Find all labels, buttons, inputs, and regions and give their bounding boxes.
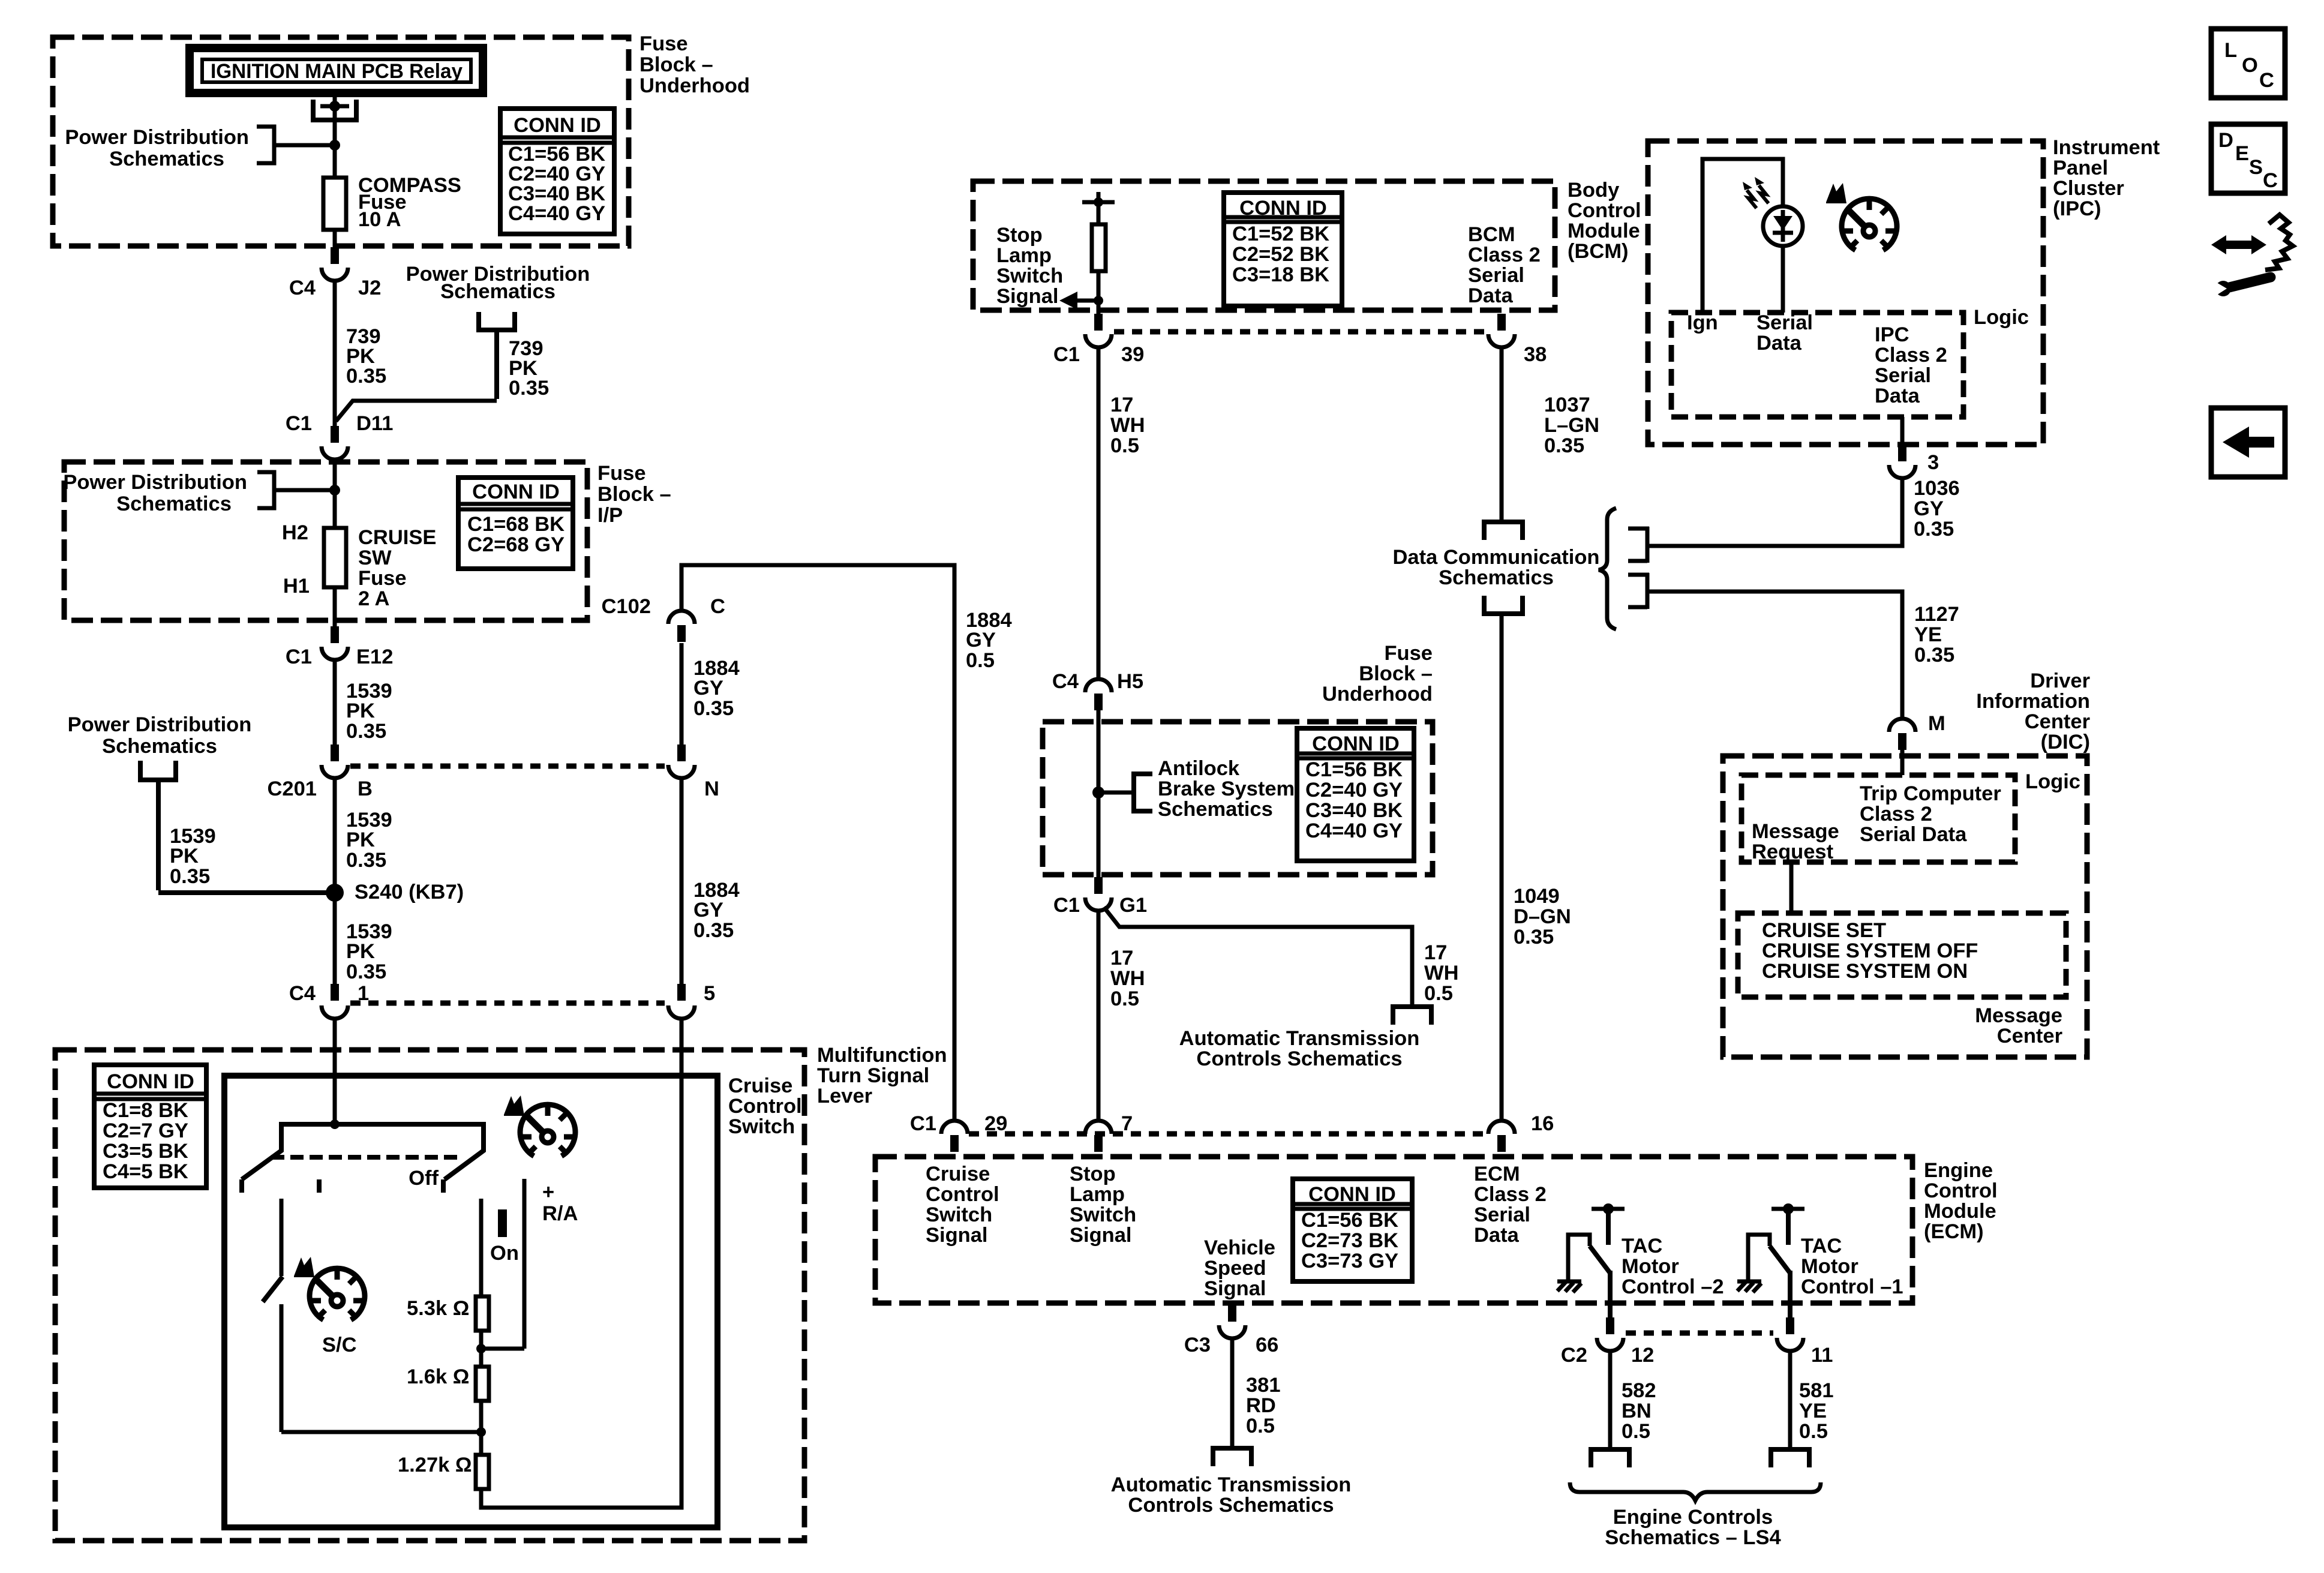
box: Multifunction Turn Signal Lever (dashed): [55, 1050, 804, 1541]
svg-text:ECM: ECM: [1474, 1163, 1520, 1185]
box: Logic (DIC): [1742, 775, 2015, 862]
svg-text:Power Distribution: Power Distribution: [68, 713, 252, 736]
TAC motor control -1: [1748, 1203, 1804, 1317]
svg-text:C: C: [2263, 169, 2278, 192]
box: Cruise Control Switch (solid): [224, 1076, 717, 1527]
svg-text:CRUISE SET: CRUISE SET: [1762, 919, 1886, 942]
label: Stop Lamp Switch Signal: [996, 224, 1063, 308]
connector line BCM (dotted): [1114, 329, 1486, 335]
box: Fuse Block - Underhood (top left): [53, 37, 629, 246]
svg-text:Serial Data: Serial Data: [1860, 823, 1967, 846]
off-page staple (581): [1771, 1449, 1809, 1467]
svg-text:Signal: Signal: [1204, 1277, 1266, 1300]
svg-text:J2: J2: [358, 277, 381, 299]
svg-text:GY: GY: [693, 677, 723, 700]
connector C1/29: [910, 1112, 1007, 1152]
svg-text:C1: C1: [910, 1112, 936, 1135]
svg-text:R/A: R/A: [542, 1202, 578, 1225]
ground (TAC -2): [1557, 1281, 1581, 1292]
wire 17 WH 0.5 (G1 to ECM 7): [1098, 911, 1145, 1121]
table: CONN ID (BCM): [1224, 193, 1342, 306]
svg-text:Vehicle: Vehicle: [1204, 1236, 1275, 1259]
box: Instrument Panel Cluster (IPC): [1648, 141, 2043, 445]
connector C4/J2: [289, 247, 381, 299]
label: Ign: [1687, 311, 1718, 334]
svg-text:L–GN: L–GN: [1544, 414, 1599, 437]
svg-text:Power Distribution: Power Distribution: [65, 126, 249, 149]
svg-text:0.5: 0.5: [1110, 987, 1139, 1010]
svg-text:Lever: Lever: [817, 1085, 872, 1107]
svg-text:C201: C201: [268, 778, 317, 800]
wire 581 YE 0.5: [1790, 1351, 1834, 1448]
svg-text:BN: BN: [1622, 1400, 1652, 1422]
svg-text:0.35: 0.35: [346, 849, 386, 872]
svg-text:CONN ID: CONN ID: [1312, 733, 1400, 755]
label: Cruise Control Switch Signal: [926, 1163, 999, 1247]
svg-text:BCM: BCM: [1468, 223, 1515, 246]
wire 582 BN 0.5: [1610, 1351, 1656, 1448]
svg-text:0.35: 0.35: [509, 377, 549, 400]
svg-text:Schematics: Schematics: [116, 493, 232, 515]
svg-text:Serial: Serial: [1875, 364, 1931, 387]
svg-text:GY: GY: [1914, 497, 1944, 520]
box: Engine Control Module (ECM): [875, 1157, 1912, 1303]
svg-text:Serial: Serial: [1468, 264, 1524, 287]
box: Message Center display (dashed): [1738, 913, 2066, 997]
label: Fuse Block - Underhood (antilock box): [1322, 642, 1433, 706]
svg-text:C1: C1: [1053, 343, 1080, 366]
off-page staple (data comm bottom): [1484, 596, 1523, 614]
svg-text:0.35: 0.35: [1914, 644, 1954, 667]
contact On line: [479, 1199, 484, 1296]
svg-text:Data Communication: Data Communication: [1392, 546, 1599, 569]
svg-text:B: B: [358, 778, 373, 800]
svg-text:C102: C102: [602, 595, 651, 618]
svg-text:Multifunction: Multifunction: [817, 1044, 947, 1067]
svg-text:H2: H2: [282, 521, 308, 544]
svg-text:Control –2: Control –2: [1622, 1275, 1724, 1298]
label: Automatic Transmission Controls Schematics (lower): [1111, 1473, 1352, 1517]
svg-text:WH: WH: [1110, 967, 1145, 990]
label: Trip Computer Class 2 Serial Data: [1860, 782, 2001, 846]
label: ECM Class 2 Serial Data: [1474, 1163, 1547, 1247]
wire 1539 PK 0.35 (B to S240): [335, 778, 392, 984]
svg-text:Information: Information: [1976, 690, 2090, 713]
label: Logic (IPC): [1974, 306, 2029, 329]
label: Multifunction Turn Signal Lever: [817, 1044, 947, 1107]
svg-text:Power Distribution: Power Distribution: [63, 471, 247, 494]
label: Body Control Module (BCM): [1568, 179, 1641, 263]
svg-text:C: C: [2259, 69, 2274, 92]
svg-text:Schematics – LS4: Schematics – LS4: [1605, 1526, 1780, 1549]
contact tick Off: [409, 1167, 443, 1193]
connector 16: [1488, 1112, 1554, 1152]
LED indicator: [1763, 206, 1803, 246]
svg-text:C1=8 BK: C1=8 BK: [103, 1099, 188, 1122]
svg-text:D–GN: D–GN: [1514, 905, 1571, 928]
label: CRUISE messages: [1762, 919, 1978, 983]
label: CRUISE SW Fuse 2 A: [358, 526, 436, 610]
wire 1884 GY 0.35 (5 to N): [681, 778, 740, 984]
relay K: IGNITION MAIN PCB Relay box: [190, 48, 483, 93]
svg-text:E: E: [2235, 142, 2249, 165]
connector C3/66: [1184, 1305, 1278, 1356]
label: Stop Lamp Switch Signal (ECM): [1070, 1163, 1136, 1247]
svg-text:C4=5 BK: C4=5 BK: [103, 1160, 188, 1183]
svg-text:Block –: Block –: [639, 53, 713, 76]
contact tick (middle): [317, 1179, 322, 1193]
svg-text:Schematics: Schematics: [109, 148, 224, 170]
svg-text:S: S: [2249, 156, 2263, 179]
wire: fuse to C4/J2: [333, 230, 337, 247]
label: COMPASS Fuse 10 A: [358, 174, 461, 231]
svg-text:C2=40 GY: C2=40 GY: [1305, 779, 1403, 801]
svg-text:Engine: Engine: [1924, 1159, 1993, 1182]
svg-text:1036: 1036: [1914, 477, 1960, 500]
svg-text:Antilock: Antilock: [1158, 757, 1240, 780]
wire: LED to logic: [1781, 246, 1785, 313]
svg-text:Schematics: Schematics: [1158, 798, 1273, 821]
svg-text:Request: Request: [1752, 840, 1834, 863]
svg-text:Logic: Logic: [1974, 306, 2029, 329]
wire: S/C to resistor junction: [281, 1304, 481, 1432]
svg-text:C1=52 BK: C1=52 BK: [1232, 223, 1329, 245]
svg-text:Center: Center: [2025, 710, 2090, 733]
wire 1539 PK 0.35 (E12 to C201): [335, 660, 392, 745]
svg-text:SW: SW: [358, 547, 392, 569]
wire 739 PK 0.35 (C4/J2 to C1/D11): [335, 281, 386, 426]
svg-text:11: 11: [1811, 1344, 1833, 1367]
svg-text:66: 66: [1256, 1334, 1278, 1356]
svg-text:O: O: [2242, 54, 2258, 77]
wire: fuse to C1/E12: [333, 587, 337, 626]
svg-text:C3=5 BK: C3=5 BK: [103, 1140, 188, 1163]
connector 5: [668, 982, 715, 1019]
svg-text:E12: E12: [356, 646, 393, 668]
icon box: LOC: [2211, 29, 2285, 98]
svg-text:1.27k Ω: 1.27k Ω: [398, 1454, 472, 1476]
off-page staple (381): [1213, 1448, 1251, 1466]
svg-text:C3=18 BK: C3=18 BK: [1232, 263, 1329, 286]
svg-text:CONN ID: CONN ID: [107, 1070, 194, 1093]
svg-text:7: 7: [1121, 1112, 1133, 1135]
contact R/A line: [524, 1179, 578, 1349]
relay pin socket: [313, 100, 356, 120]
box: Fuse Block - I/P: [64, 462, 587, 620]
svg-text:Class 2: Class 2: [1468, 244, 1541, 266]
svg-text:1037: 1037: [1544, 394, 1590, 416]
svg-text:C3=40 BK: C3=40 BK: [1305, 799, 1403, 822]
connector M: [1889, 712, 1945, 750]
wire 1884 GY 0.5 (C102 up and over to ECM 29): [681, 565, 1012, 1121]
wire: C4/1 into switch: [330, 1019, 340, 1129]
svg-text:16: 16: [1531, 1112, 1554, 1135]
connector C1/E12: [286, 626, 394, 668]
junction S240 (KB7): [326, 881, 464, 903]
svg-text:0.35: 0.35: [346, 960, 386, 983]
svg-text:Data: Data: [1756, 332, 1802, 355]
svg-text:Motor: Motor: [1801, 1255, 1858, 1278]
svg-text:Serial: Serial: [1474, 1203, 1530, 1226]
svg-text:Underhood: Underhood: [639, 74, 750, 97]
svg-text:Ign: Ign: [1687, 311, 1718, 334]
svg-text:Automatic Transmission: Automatic Transmission: [1179, 1027, 1420, 1050]
svg-text:Driver: Driver: [2030, 670, 2090, 692]
svg-text:Data: Data: [1468, 284, 1514, 307]
label: Message Center: [1975, 1004, 2062, 1047]
wire 17 WH 0.5 (39 to H5): [1098, 347, 1145, 679]
svg-text:Control: Control: [728, 1095, 802, 1118]
svg-text:CONN ID: CONN ID: [1308, 1183, 1396, 1206]
lightning arrows (LED): [1743, 177, 1768, 208]
svg-text:0.5: 0.5: [1424, 982, 1453, 1005]
connector 38: [1488, 314, 1547, 366]
svg-text:(IPC): (IPC): [2053, 197, 2101, 220]
svg-text:Module: Module: [1568, 220, 1640, 242]
wire + junction (5.3k/1.6k, R/A tap): [476, 1331, 524, 1367]
svg-text:IPC: IPC: [1875, 323, 1909, 346]
svg-text:Stop: Stop: [1070, 1163, 1116, 1185]
svg-text:Brake System: Brake System: [1158, 778, 1295, 800]
svg-text:5.3k Ω: 5.3k Ω: [407, 1297, 469, 1320]
wire 17 WH 0.5 branch (G1 to automatic transmission): [1104, 907, 1458, 1005]
svg-text:PK: PK: [346, 700, 375, 722]
svg-text:GY: GY: [966, 629, 996, 652]
svg-text:Fuse: Fuse: [1384, 642, 1433, 665]
svg-text:H5: H5: [1117, 670, 1143, 693]
svg-text:I/P: I/P: [597, 504, 623, 527]
svg-text:C1=56 BK: C1=56 BK: [1305, 758, 1403, 781]
brace: Engine Controls Schematics - LS4: [1570, 1482, 1821, 1500]
wire: Ign riser: [1703, 159, 1783, 313]
svg-text:WH: WH: [1424, 962, 1458, 984]
svg-text:1049: 1049: [1514, 885, 1560, 908]
svg-text:Motor: Motor: [1622, 1255, 1679, 1278]
fuse F1: COMPASS Fuse 10 A: [323, 178, 346, 230]
table: CONN ID (cruise switch): [94, 1065, 206, 1188]
brace (data comm): [1599, 508, 1616, 629]
gauge icon (top right in switch): [504, 1095, 575, 1156]
svg-text:Serial: Serial: [1756, 311, 1813, 334]
label: Power Distribution Schematics (box1): [65, 126, 249, 170]
table: CONN ID (I/P): [458, 478, 573, 569]
svg-text:CONN ID: CONN ID: [514, 114, 601, 137]
svg-text:TAC: TAC: [1801, 1235, 1842, 1257]
stop lamp switch feed bar: [1082, 192, 1115, 207]
label: Cruise Control Switch: [728, 1074, 802, 1138]
svg-text:Data: Data: [1875, 385, 1920, 407]
svg-text:C4: C4: [289, 277, 316, 299]
svg-text:Fuse: Fuse: [597, 462, 646, 485]
resistor 5.3k: [407, 1296, 489, 1331]
connector line C2 (dotted): [1626, 1331, 1773, 1336]
connector 7: [1085, 1112, 1133, 1152]
svg-text:Lamp: Lamp: [996, 244, 1052, 267]
svg-text:GY: GY: [693, 899, 723, 921]
svg-text:17: 17: [1110, 947, 1133, 969]
svg-text:38: 38: [1524, 343, 1547, 366]
svg-text:D11: D11: [356, 412, 393, 435]
svg-text:C1: C1: [1053, 894, 1080, 917]
svg-text:Message: Message: [1975, 1004, 2062, 1027]
table: CONN ID (antilock): [1297, 728, 1414, 861]
svg-text:5: 5: [704, 982, 715, 1005]
gauge icon (IPC): [1826, 183, 1897, 250]
svg-text:Engine Controls: Engine Controls: [1613, 1506, 1773, 1529]
svg-text:0.35: 0.35: [693, 919, 734, 942]
svg-text:17: 17: [1424, 941, 1447, 964]
svg-text:39: 39: [1121, 343, 1144, 366]
svg-text:L: L: [2224, 39, 2237, 62]
svg-text:0.35: 0.35: [170, 865, 210, 888]
svg-text:Switch: Switch: [1070, 1203, 1136, 1226]
svg-text:29: 29: [984, 1112, 1007, 1135]
svg-text:N: N: [704, 778, 719, 800]
label: Power Distribution Schematics (left S240 branch): [68, 713, 252, 758]
connector line C201 (dotted to N): [350, 764, 665, 769]
svg-text:0.5: 0.5: [1246, 1415, 1275, 1437]
svg-text:H1: H1: [283, 575, 310, 598]
svg-text:Control: Control: [1924, 1179, 1998, 1202]
svg-text:3: 3: [1927, 451, 1939, 474]
label: Logic (DIC): [2025, 770, 2080, 793]
svg-text:Speed: Speed: [1204, 1257, 1266, 1280]
resistor 1.6k: [407, 1365, 489, 1401]
svg-text:YE: YE: [1914, 623, 1942, 646]
svg-text:M: M: [1928, 712, 1945, 735]
svg-text:C: C: [710, 595, 725, 618]
svg-text:0.35: 0.35: [1914, 518, 1954, 541]
resistor 1.27k: [398, 1454, 489, 1489]
svg-text:C2=73 BK: C2=73 BK: [1301, 1229, 1398, 1252]
svg-text:D: D: [2218, 129, 2233, 152]
svg-text:Block –: Block –: [597, 483, 671, 506]
svg-text:582: 582: [1622, 1379, 1656, 1402]
svg-text:Controls Schematics: Controls Schematics: [1128, 1494, 1334, 1517]
svg-text:Switch: Switch: [996, 265, 1063, 287]
svg-text:1127: 1127: [1914, 603, 1959, 626]
connector C4/1: [289, 982, 369, 1019]
svg-text:Control: Control: [926, 1183, 999, 1206]
wire: D11 to cruise fuse: [333, 460, 337, 528]
ground (TAC -1): [1737, 1281, 1761, 1292]
fuse F2: CRUISE SW Fuse 2 A: [282, 521, 346, 598]
svg-text:Class 2: Class 2: [1875, 344, 1947, 367]
svg-text:0.5: 0.5: [1622, 1420, 1650, 1443]
connector C2/12: [1561, 1317, 1654, 1367]
svg-text:Controls Schematics: Controls Schematics: [1196, 1047, 1402, 1070]
label: IPC Class 2 Serial Data: [1875, 323, 1947, 407]
connector line C4 (dotted to 5): [350, 1001, 665, 1006]
off-page staple: power distribution branch: [479, 312, 515, 330]
label: Engine Control Module (ECM): [1924, 1159, 1998, 1243]
wire + junction (1.6k/1.27k): [476, 1401, 486, 1455]
connector 11: [1777, 1317, 1833, 1367]
wire 1127 YE 0.35 (data comm to DIC M): [1649, 592, 1959, 719]
svg-text:C1=68 BK: C1=68 BK: [467, 513, 565, 536]
label: Power Distribution Schematics (right branch): [406, 263, 590, 303]
wire 381 RD 0.5: [1232, 1338, 1281, 1447]
wire: M into logic: [1900, 750, 1905, 775]
label: Driver Information Center (DIC): [1976, 670, 2090, 754]
off-page tab (to DIC serial data): [1628, 573, 1649, 609]
svg-text:Data: Data: [1474, 1224, 1520, 1247]
stop lamp switch element: [1092, 202, 1106, 314]
svg-text:Center: Center: [1997, 1025, 2062, 1047]
svg-text:0.5: 0.5: [1110, 434, 1139, 457]
svg-text:Signal: Signal: [996, 285, 1059, 308]
wire: H5 through box: [1097, 710, 1101, 877]
connector C1/39: [1053, 314, 1144, 366]
svg-text:C2=68 GY: C2=68 GY: [467, 533, 565, 556]
wire: relay to fuse: [333, 93, 337, 178]
svg-text:C1=56 BK: C1=56 BK: [1301, 1209, 1398, 1232]
wire 1036 GY 0.35 (3 to data comm): [1649, 477, 1960, 546]
label: Engine Controls Schematics - LS4: [1605, 1506, 1780, 1549]
switch rocker bus bar: [242, 1124, 484, 1193]
svg-text:Class 2: Class 2: [1860, 803, 1932, 825]
svg-text:Automatic Transmission: Automatic Transmission: [1111, 1473, 1352, 1496]
label: Power Distribution Schematics (I/P box): [63, 471, 247, 515]
connector C102/C: [602, 595, 725, 642]
label: Instrument Panel Cluster (IPC): [2053, 136, 2160, 220]
svg-text:C3: C3: [1184, 1334, 1211, 1356]
label: TAC Motor Control -1: [1801, 1235, 1903, 1298]
svg-text:10 A: 10 A: [358, 208, 401, 231]
svg-text:Off: Off: [409, 1167, 439, 1190]
rocker coupling (dashed): [271, 1155, 463, 1160]
connector C201/B: [268, 745, 373, 800]
gauge icon S/C: [294, 1257, 365, 1356]
svg-text:0.35: 0.35: [346, 720, 386, 743]
wire 1539 PK 0.35 (branch to S240): [158, 780, 335, 893]
svg-text:0.35: 0.35: [346, 365, 386, 388]
svg-text:0.35: 0.35: [693, 697, 734, 720]
wire 739 PK 0.35 (branch to D11): [336, 330, 549, 421]
wire 1539 PK 0.35 (S240 to C4/1): [346, 920, 392, 983]
svg-text:C4=40 GY: C4=40 GY: [1305, 819, 1403, 842]
svg-text:0.35: 0.35: [1514, 926, 1554, 948]
off-page bracket: Power Distribution Schematics (in box1): [257, 127, 340, 163]
svg-text:Body: Body: [1568, 179, 1619, 202]
svg-text:Fuse: Fuse: [358, 567, 407, 590]
svg-text:Turn Signal: Turn Signal: [817, 1064, 929, 1087]
wire 1049 D-GN 0.35 (to ECM 16): [1502, 614, 1571, 1121]
svg-text:Class 2: Class 2: [1474, 1183, 1547, 1206]
box: Logic (IPC): [1671, 313, 1963, 417]
svg-text:Instrument: Instrument: [2053, 136, 2160, 159]
svg-text:Stop: Stop: [996, 224, 1043, 247]
svg-text:0.35: 0.35: [1544, 434, 1584, 457]
svg-text:C4=40 GY: C4=40 GY: [508, 202, 605, 225]
stop lamp signal arrow: [1059, 292, 1103, 310]
connector N: [668, 745, 719, 800]
svg-text:C1: C1: [286, 412, 312, 435]
connector C4/H5: [1052, 670, 1143, 710]
svg-text:CONN ID: CONN ID: [472, 481, 560, 503]
off-page staple (data comm top): [1484, 522, 1523, 540]
svg-text:Cluster: Cluster: [2053, 177, 2124, 200]
svg-text:Lamp: Lamp: [1070, 1183, 1125, 1206]
label: Vehicle Speed Signal: [1204, 1236, 1275, 1300]
svg-text:C4: C4: [1052, 670, 1079, 693]
On position mark: [490, 1209, 519, 1265]
svg-text:Switch: Switch: [728, 1115, 795, 1138]
junction + bracket: Antilock Brake System Schematics: [1092, 774, 1152, 811]
box: Fuse Block - Underhood (antilock): [1043, 722, 1433, 875]
icon box: back arrow: [2211, 408, 2285, 477]
svg-text:YE: YE: [1799, 1400, 1827, 1422]
